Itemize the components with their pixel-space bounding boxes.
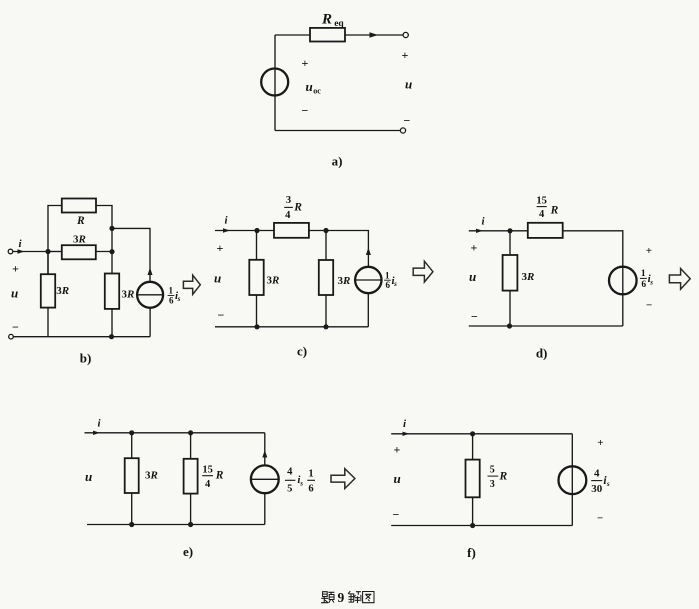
- arrowhead i on c input: [223, 228, 230, 232]
- svg-text:−: −: [302, 104, 309, 118]
- wire: e bottom: [87, 524, 265, 526]
- svg-text:−: −: [12, 320, 19, 334]
- svg-text:u: u: [469, 269, 476, 284]
- svg-text:R: R: [76, 215, 85, 227]
- svg-text:6: 6: [641, 280, 646, 290]
- wire: c node1 to resistor: [257, 230, 274, 232]
- wire: b left vertical to resistor: [47, 252, 49, 275]
- svg-text:R: R: [526, 271, 534, 283]
- node 2 (e): [188, 430, 193, 435]
- svg-text:u: u: [214, 271, 221, 286]
- wire: b input: [13, 251, 48, 253]
- svg-text:R: R: [150, 470, 158, 482]
- wire: d 3R branch upper: [509, 231, 511, 255]
- svg-text:+: +: [302, 56, 309, 70]
- terminal b top-left (open circle): [8, 249, 13, 254]
- wire: b node B to source top: [112, 228, 150, 282]
- node top (d): [507, 228, 512, 233]
- svg-text:+: +: [646, 245, 652, 257]
- current source 4/30 is (f): [559, 466, 587, 494]
- resistor 3R box (c left): [249, 260, 263, 295]
- wire: d bottom: [469, 325, 623, 327]
- wire: f input/top: [391, 433, 572, 435]
- wire: c input: [215, 230, 257, 232]
- svg-text:s: s: [393, 280, 397, 288]
- svg-text:6: 6: [308, 483, 313, 494]
- label 4/5 is 1/6 (e): [285, 467, 315, 495]
- label Req: [321, 12, 344, 30]
- label 3R (c right): [338, 275, 351, 287]
- node bottom 1 (e): [129, 522, 134, 527]
- wire: d input: [469, 230, 510, 232]
- svg-text:+: +: [12, 262, 19, 276]
- current source 4/5 is 1/6 (e): [251, 465, 279, 493]
- svg-text:i: i: [482, 216, 486, 228]
- svg-text:R: R: [61, 285, 69, 297]
- node B (b): [109, 226, 114, 231]
- wire: b middle row left: [48, 251, 62, 253]
- wire: b left vertical upper: [48, 206, 62, 275]
- resistor 15/4R box (d top): [528, 223, 563, 238]
- svg-text:5: 5: [287, 483, 292, 494]
- wire: c right 3R branch upper: [325, 231, 327, 261]
- svg-text:+: +: [394, 443, 401, 457]
- svg-text:i: i: [403, 418, 407, 430]
- wire: a) bottom: [275, 130, 400, 132]
- current arrowhead on a) top wire: [370, 32, 379, 38]
- label 4/30 is (f): [591, 468, 610, 496]
- terminal a top (open circle): [403, 32, 408, 37]
- wire: b middle row right: [96, 251, 112, 253]
- svg-text:c): c): [297, 344, 307, 359]
- svg-text:−: −: [597, 512, 603, 524]
- wire: f 5/3R branch upper: [472, 434, 474, 460]
- wire: e source branch lower: [264, 493, 266, 524]
- caption glyph 题: [321, 592, 334, 603]
- resistor Req box: [310, 28, 345, 42]
- caption glyph 图: [363, 592, 374, 603]
- wire: d 3R branch lower: [509, 291, 511, 326]
- svg-text:b): b): [80, 351, 92, 366]
- wire: c left 3R branch upper: [256, 231, 258, 260]
- svg-text:4: 4: [205, 479, 211, 490]
- svg-text:R: R: [499, 471, 508, 483]
- arrowhead i on e input: [93, 431, 100, 435]
- svg-text:30: 30: [591, 483, 603, 495]
- svg-text:+: +: [597, 437, 603, 449]
- label 3R (b middle): [73, 234, 86, 246]
- caption: 题9解图 (hand-drawn CJK glyphs + digit 9): [321, 590, 374, 605]
- svg-text:e): e): [183, 544, 193, 559]
- wire: e 15/4R branch lower: [190, 494, 192, 525]
- resistor 3R box (b left vertical): [41, 274, 55, 307]
- label 5/3 R (f): [488, 464, 508, 490]
- svg-text:R: R: [271, 275, 279, 287]
- arrowhead of current source (c): [366, 248, 371, 256]
- wire: c bottom: [215, 326, 368, 328]
- label 1/6 is (d): [640, 269, 653, 290]
- wire: c node2 to source branch: [326, 231, 368, 268]
- resistor 3R box (d): [503, 255, 518, 291]
- svg-text:15: 15: [536, 196, 547, 207]
- wire: b left vertical lower: [47, 308, 49, 337]
- svg-text:s: s: [606, 480, 610, 488]
- label 1/6 is (c): [384, 270, 397, 290]
- node bottom 2 (e): [188, 522, 193, 527]
- wire: b right vertical lower: [111, 309, 113, 337]
- svg-text:9: 9: [338, 590, 345, 605]
- label 3R (d): [522, 271, 535, 283]
- caption glyph 解: [348, 591, 361, 603]
- svg-text:eq: eq: [334, 19, 344, 29]
- node C (b): [109, 249, 114, 254]
- svg-text:5: 5: [490, 464, 495, 475]
- svg-text:3: 3: [490, 479, 495, 490]
- svg-text:1: 1: [169, 286, 174, 296]
- svg-text:s: s: [177, 295, 181, 303]
- big arrow d to e: [669, 269, 690, 290]
- svg-text:6: 6: [385, 280, 390, 290]
- wire: d top right to source branch: [563, 231, 623, 326]
- voltage source u_oc (circle): [261, 69, 288, 96]
- svg-text:R: R: [293, 202, 302, 214]
- terminal a bottom (open circle): [400, 128, 405, 133]
- arrowhead of current source (b): [148, 268, 153, 276]
- wire: d node to resistor: [510, 230, 528, 232]
- node 1 (e): [129, 430, 134, 435]
- resistor 3R box (c right): [319, 260, 333, 295]
- svg-text:u: u: [394, 471, 401, 486]
- label 3R (b right vertical): [122, 289, 135, 301]
- svg-text:+: +: [471, 241, 478, 255]
- resistor 3R box (b right vertical): [105, 274, 119, 309]
- svg-text:+: +: [402, 48, 409, 62]
- wire: b top-right jog down to node B: [96, 206, 112, 229]
- arrowhead i on b input: [18, 249, 25, 253]
- svg-text:1: 1: [641, 269, 646, 279]
- arrowhead of current source (e): [262, 450, 267, 458]
- node bottom-left (c): [254, 324, 259, 329]
- node top (f): [470, 431, 475, 436]
- svg-text:15: 15: [202, 464, 213, 475]
- label 3/4 R (c top): [284, 195, 302, 221]
- wire: c left 3R branch lower: [256, 295, 258, 327]
- svg-text:1: 1: [385, 270, 390, 280]
- node bottom (d): [507, 323, 512, 328]
- wire: e input/top: [85, 432, 265, 434]
- svg-text:R: R: [321, 12, 332, 28]
- big arrow c to d: [413, 261, 433, 282]
- current source 1/6 is (c): [355, 267, 381, 293]
- label 1/6 is (b): [168, 286, 181, 306]
- label 15/4 R (e): [202, 464, 224, 490]
- wire: e 3R branch upper: [131, 433, 133, 458]
- svg-text:R: R: [550, 204, 559, 216]
- wire: c source bottom: [367, 293, 369, 327]
- wire: c resistor to node2: [309, 230, 326, 232]
- svg-text:u: u: [11, 286, 18, 301]
- node bottom (f): [470, 523, 475, 528]
- node A (b): [45, 249, 50, 254]
- svg-text:+: +: [217, 241, 224, 255]
- svg-text:−: −: [646, 299, 652, 311]
- wire: a) top from resistor to terminal: [345, 34, 403, 36]
- arrowhead i on d input: [476, 229, 483, 233]
- terminal b bottom-left (open circle): [9, 334, 14, 339]
- node bottom-right (c): [323, 324, 328, 329]
- node 2 (c): [323, 228, 328, 233]
- svg-text:i: i: [19, 238, 23, 250]
- resistor 3R box (e): [125, 458, 139, 493]
- svg-text:3: 3: [286, 195, 291, 206]
- label 15/4 R (d top): [536, 196, 558, 220]
- wire: b bottom: [13, 336, 150, 338]
- current source 1/6 is (d): [609, 267, 637, 295]
- wire: b right vertical to resistor: [111, 228, 113, 273]
- resistor 5/3R box (f): [466, 460, 480, 498]
- svg-text:oc: oc: [313, 87, 321, 96]
- resistor R box (b top): [62, 199, 96, 213]
- big arrow e to f: [331, 469, 355, 489]
- wire: e 3R branch lower: [131, 493, 133, 525]
- svg-text:4: 4: [287, 467, 293, 478]
- wire: c right 3R branch lower: [325, 295, 327, 327]
- svg-text:R: R: [342, 275, 350, 287]
- svg-text:−: −: [218, 308, 225, 322]
- label 3R (b left vertical): [56, 285, 69, 297]
- svg-text:u: u: [85, 469, 92, 484]
- node bottom (b): [109, 334, 114, 339]
- svg-text:−: −: [393, 507, 400, 521]
- label uoc: [306, 79, 322, 96]
- svg-text:s: s: [649, 279, 653, 287]
- svg-text:6: 6: [169, 295, 174, 305]
- svg-text:1: 1: [308, 469, 313, 480]
- svg-text:u: u: [306, 79, 313, 94]
- wire: b source bottom: [149, 308, 151, 337]
- node 1 (c): [254, 228, 259, 233]
- svg-text:4: 4: [539, 209, 545, 220]
- svg-text:R: R: [215, 469, 224, 481]
- label 3R (c left): [267, 275, 280, 287]
- wire: f bottom: [391, 525, 572, 527]
- wire: f 5/3R branch lower: [472, 497, 474, 525]
- svg-text:i: i: [225, 215, 229, 227]
- svg-text:d): d): [536, 346, 548, 361]
- wire: e 15/4R branch upper: [190, 433, 192, 459]
- wire: e source branch upper: [264, 433, 266, 466]
- svg-text:a): a): [332, 154, 343, 169]
- svg-text:i: i: [98, 418, 102, 430]
- resistor 3/4R box (c top): [274, 223, 309, 238]
- svg-text:R: R: [78, 234, 86, 246]
- svg-text:4: 4: [285, 210, 291, 221]
- wire: a) top from source to resistor: [275, 34, 310, 36]
- wire: a) left vertical: [274, 35, 276, 131]
- svg-text:u: u: [405, 77, 412, 92]
- svg-text:s: s: [299, 480, 303, 488]
- wire: f source branch (through circle): [571, 434, 573, 526]
- svg-text:f): f): [467, 545, 476, 560]
- svg-text:R: R: [126, 289, 134, 301]
- current source 1/6 is (b): [137, 282, 163, 308]
- resistor 15/4R box (e): [184, 459, 198, 494]
- svg-text:4: 4: [594, 468, 600, 480]
- big arrow b to c: [183, 275, 200, 294]
- arrowhead i on f input: [403, 432, 410, 436]
- svg-text:−: −: [471, 309, 478, 323]
- label 3R (e): [145, 470, 158, 482]
- resistor 3R box (b middle): [62, 245, 96, 259]
- svg-text:−: −: [404, 113, 411, 127]
